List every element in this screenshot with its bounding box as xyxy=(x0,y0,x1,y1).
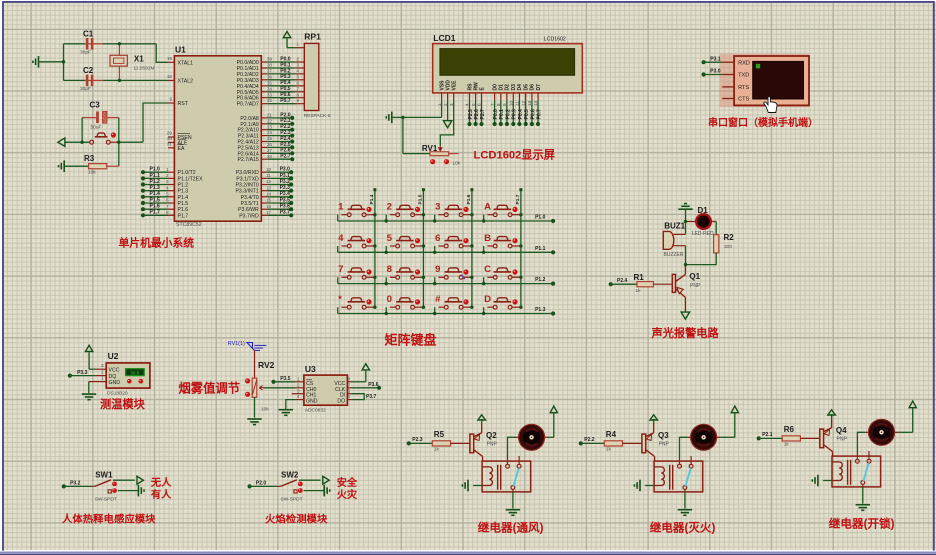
node xyxy=(118,79,121,82)
svg-text:3: 3 xyxy=(297,388,300,393)
node xyxy=(684,220,687,223)
wire VSS to ground rail xyxy=(403,100,442,117)
transistor Q4 PNP xyxy=(820,419,848,457)
svg-text:C: C xyxy=(484,264,491,275)
svg-text:30: 30 xyxy=(167,136,173,141)
wire LCD D5 to net P0.5 xyxy=(524,100,530,126)
wire net P3.5 xyxy=(271,376,295,384)
cursor artifact xyxy=(462,274,466,280)
relay moving contact xyxy=(686,468,691,486)
svg-text:P1.1: P1.1 xyxy=(535,246,546,252)
svg-text:P1.5: P1.5 xyxy=(150,197,161,203)
ground up symbol xyxy=(678,204,692,234)
U1 pin P0.7 wire to RP1 xyxy=(237,98,305,108)
svg-text:7: 7 xyxy=(347,382,350,387)
svg-text:测温模块: 测温模块 xyxy=(100,397,146,411)
svg-text:BUZZER: BUZZER xyxy=(664,252,684,258)
pushbutton key 6 xyxy=(435,233,474,253)
svg-text:P3.5/T1: P3.5/T1 xyxy=(241,201,259,207)
U3 right pin 8 xyxy=(347,376,351,381)
svg-text:人体热释电感应模块: 人体热释电感应模块 xyxy=(62,513,156,526)
wire xyxy=(118,118,120,167)
LCD pin D3 xyxy=(509,84,518,106)
svg-text:P1.6: P1.6 xyxy=(150,204,161,210)
node xyxy=(482,251,485,254)
svg-text:24: 24 xyxy=(267,130,273,135)
svg-text:19: 19 xyxy=(167,56,173,61)
svg-text:RST: RST xyxy=(178,101,189,107)
svg-text:P2.2: P2.2 xyxy=(584,437,595,443)
keypad column net P1.4 xyxy=(369,188,377,307)
node xyxy=(433,219,436,222)
svg-text:P3.2/INT0: P3.2/INT0 xyxy=(235,183,258,189)
svg-text:C2: C2 xyxy=(83,66,94,75)
LED D1 xyxy=(686,206,717,237)
svg-text:安全: 安全 xyxy=(337,476,358,489)
svg-text:P0.0: P0.0 xyxy=(493,109,499,120)
U1 pin P1.3 with net stub xyxy=(141,185,188,195)
ground xyxy=(247,419,261,425)
wire RV2 wiper to CH0 xyxy=(263,387,296,389)
wire LCD D3 to net P0.3 xyxy=(511,100,518,126)
svg-text:4: 4 xyxy=(297,69,300,74)
svg-text:32: 32 xyxy=(267,98,273,103)
svg-text:D5: D5 xyxy=(524,84,530,91)
svg-text:#: # xyxy=(435,294,441,305)
svg-text:10: 10 xyxy=(266,167,272,172)
svg-text:RV2: RV2 xyxy=(258,360,275,370)
U1 pin P3.1 with net stub xyxy=(236,173,293,183)
wire to ground xyxy=(118,485,144,497)
wire motor to power xyxy=(548,406,557,437)
svg-text:Q1: Q1 xyxy=(689,272,700,281)
wire to power arrow xyxy=(299,476,329,484)
svg-text:LCD1: LCD1 xyxy=(433,33,455,43)
potentiometer RV1 xyxy=(403,117,461,166)
svg-text:13: 13 xyxy=(266,185,272,190)
svg-text:RS: RS xyxy=(467,83,473,91)
svg-text:1: 1 xyxy=(101,376,104,381)
svg-text:10k: 10k xyxy=(88,170,96,176)
U1 pin P2.4 with net stub xyxy=(237,136,294,146)
node xyxy=(482,312,485,315)
reset button xyxy=(64,133,118,144)
serial pin RTS xyxy=(722,85,749,91)
wire motor to power xyxy=(720,406,738,437)
svg-text:R6: R6 xyxy=(784,425,795,434)
svg-text:P3.4: P3.4 xyxy=(280,191,291,197)
svg-text:LCD1602: LCD1602 xyxy=(544,36,566,42)
keypad column net P1.7 xyxy=(515,188,523,307)
relay RL5 xyxy=(482,461,531,492)
svg-text:声光报警电路: 声光报警电路 xyxy=(651,326,720,340)
svg-text:P3.6/WR: P3.6/WR xyxy=(238,207,259,213)
svg-text:P0.2: P0.2 xyxy=(505,109,511,120)
ground arrow down xyxy=(681,312,689,319)
svg-text:11: 11 xyxy=(266,173,271,178)
transistor Q3 PNP xyxy=(642,424,670,462)
mouse hand cursor xyxy=(764,96,777,112)
svg-text:8: 8 xyxy=(387,264,393,275)
svg-text:P0.7/AD7: P0.7/AD7 xyxy=(237,102,259,108)
svg-text:D7: D7 xyxy=(536,84,542,91)
wire to ground xyxy=(678,492,692,515)
buzzer BUZ1 xyxy=(663,221,685,258)
cursor block xyxy=(756,64,760,69)
svg-text:2: 2 xyxy=(297,382,300,387)
svg-text:P3.4/T0: P3.4/T0 xyxy=(241,195,259,201)
node xyxy=(433,282,436,285)
U3 right pin 6 xyxy=(347,388,351,393)
U1 pin P1.4 with net stub xyxy=(141,191,188,201)
LCD pin VSS xyxy=(437,80,446,106)
U1 pin P2.3 with net stub xyxy=(238,130,294,140)
svg-text:1: 1 xyxy=(297,42,300,47)
svg-text:1k: 1k xyxy=(434,447,440,453)
pushbutton key * xyxy=(338,294,377,314)
U1 left pin ALE xyxy=(167,136,188,146)
svg-text:继电器(开锁): 继电器(开锁) xyxy=(829,516,895,530)
LCD pin D7 xyxy=(533,84,542,106)
U3 left pin 1 xyxy=(296,376,304,381)
wire net P3.3 xyxy=(68,370,95,378)
button indicator xyxy=(111,132,116,137)
wire xyxy=(685,233,687,236)
capacitor C1 xyxy=(64,30,157,56)
serial pin TXD xyxy=(722,73,749,79)
svg-text:11.0592M: 11.0592M xyxy=(134,66,155,72)
svg-text:P1.3: P1.3 xyxy=(150,185,161,191)
svg-text:6: 6 xyxy=(297,80,300,85)
svg-text:D4: D4 xyxy=(517,84,523,91)
svg-text:P3.7: P3.7 xyxy=(280,210,291,216)
svg-text:P2.5: P2.5 xyxy=(468,109,474,120)
svg-text:P3.3: P3.3 xyxy=(77,370,88,376)
svg-text:P3.5: P3.5 xyxy=(280,197,291,203)
svg-text:R1: R1 xyxy=(634,273,645,282)
svg-text:DS18B20: DS18B20 xyxy=(107,390,128,396)
svg-text:GND: GND xyxy=(109,380,121,386)
pushbutton key C xyxy=(484,264,523,284)
wire net P3.6 xyxy=(351,382,381,390)
svg-text:P3.0/RXD: P3.0/RXD xyxy=(236,170,259,176)
power arrow xyxy=(478,415,486,424)
LCD pin E xyxy=(477,87,486,107)
svg-text:U2: U2 xyxy=(108,351,119,361)
svg-text:29: 29 xyxy=(167,131,173,136)
svg-text:15: 15 xyxy=(266,198,272,203)
svg-text:10k: 10k xyxy=(452,160,460,166)
svg-text:C3: C3 xyxy=(90,101,101,110)
svg-text:无人: 无人 xyxy=(150,476,172,489)
pushbutton key 0 xyxy=(386,294,425,314)
keypad row net P1.1 xyxy=(338,246,556,255)
svg-text:7: 7 xyxy=(338,264,343,275)
svg-text:BUZ1: BUZ1 xyxy=(664,221,685,230)
node xyxy=(385,219,388,222)
resistor R5 xyxy=(432,430,470,453)
svg-text:SW2: SW2 xyxy=(281,470,299,479)
svg-text:P1.7: P1.7 xyxy=(515,194,521,204)
svg-text:EA: EA xyxy=(178,146,185,152)
LCD1 display body xyxy=(433,33,583,93)
svg-text:2: 2 xyxy=(297,57,300,62)
LCD pin VEE xyxy=(449,80,458,106)
svg-text:4: 4 xyxy=(297,394,300,399)
wire LCD RW to net P2.6 xyxy=(474,100,481,126)
wire LCD D6 to net P0.6 xyxy=(530,100,536,126)
terminal indicator xyxy=(444,159,449,164)
power arrow xyxy=(283,32,295,48)
U1 pin P1.1 with net stub xyxy=(141,173,203,183)
resistor R4 xyxy=(604,430,642,453)
svg-text:2: 2 xyxy=(101,370,104,375)
U1 pin P2.1 with net stub xyxy=(240,118,294,128)
U1 pin P3.6 with net stub xyxy=(238,204,293,214)
svg-text:P3.6: P3.6 xyxy=(280,204,291,210)
wire LCD RS to net P2.5 xyxy=(467,100,474,126)
svg-text:P1.4: P1.4 xyxy=(178,195,189,201)
svg-text:30pF: 30pF xyxy=(80,86,91,92)
svg-text:U1: U1 xyxy=(175,45,186,55)
svg-text:35: 35 xyxy=(267,80,273,85)
terminal indicator xyxy=(430,159,435,164)
svg-text:4: 4 xyxy=(338,233,344,244)
wire VEE to RV1 wiper xyxy=(440,100,453,146)
svg-text:烟雾值调节: 烟雾值调节 xyxy=(179,381,241,396)
wire pole to motor xyxy=(857,432,865,452)
wire LCD D1 to net P0.1 xyxy=(499,100,506,126)
svg-text:ADC0832: ADC0832 xyxy=(305,408,326,414)
svg-text:1k: 1k xyxy=(636,288,642,294)
svg-text:*: * xyxy=(338,294,342,305)
svg-text:P3.5: P3.5 xyxy=(280,376,291,382)
svg-text:P2.4: P2.4 xyxy=(617,278,628,284)
svg-text:P3.7: P3.7 xyxy=(366,394,377,400)
power arrow xyxy=(85,345,95,369)
U1 pin P1.7 with net stub xyxy=(141,210,188,220)
svg-text:22: 22 xyxy=(267,118,273,123)
svg-text:U3: U3 xyxy=(305,364,316,374)
U1 pin P0.6 wire to RP1 xyxy=(237,92,305,102)
svg-text:RXD: RXD xyxy=(738,60,750,66)
power arrow xyxy=(351,364,369,382)
pushbutton key A xyxy=(484,202,523,222)
wire to RST xyxy=(119,103,168,142)
svg-text:P3.0: P3.0 xyxy=(280,167,291,173)
ground xyxy=(812,475,832,487)
svg-text:PNP: PNP xyxy=(690,283,701,289)
power arrow xyxy=(650,415,658,424)
svg-text:9: 9 xyxy=(169,97,172,102)
motor xyxy=(687,424,720,450)
U1 pin P1.0 with net stub xyxy=(141,167,196,177)
LCD pin RS xyxy=(465,83,474,106)
U1 left pin XTAL1 xyxy=(167,56,193,67)
U3 right pin 7 xyxy=(347,382,351,387)
ground xyxy=(82,382,96,400)
keypad row net P1.0 xyxy=(338,215,556,223)
U1 left pin EA xyxy=(167,141,185,151)
U1 pin P3.7 with net stub xyxy=(239,210,293,220)
wire to ground xyxy=(506,492,520,515)
relay contact pole xyxy=(506,456,521,492)
U1 pin P0.4 wire to RP1 xyxy=(237,80,305,90)
svg-text:X1: X1 xyxy=(134,55,144,64)
svg-text:1: 1 xyxy=(297,376,300,381)
svg-text:P3.1/TXD: P3.1/TXD xyxy=(236,176,259,182)
svg-text:5: 5 xyxy=(387,233,393,244)
svg-text:1k: 1k xyxy=(784,442,790,448)
svg-text:火焰检测模块: 火焰检测模块 xyxy=(265,513,328,526)
svg-text:3: 3 xyxy=(101,363,104,368)
resistor R1 xyxy=(609,273,673,294)
node xyxy=(401,116,404,119)
ground arrow xyxy=(58,138,65,146)
svg-text:D0: D0 xyxy=(492,84,498,91)
svg-text:C1: C1 xyxy=(83,30,94,39)
svg-text:P1.4: P1.4 xyxy=(369,194,375,204)
svg-text:P1.1: P1.1 xyxy=(150,173,161,179)
node xyxy=(62,60,65,63)
svg-text:有人: 有人 xyxy=(151,488,172,501)
pushbutton key 5 xyxy=(386,233,425,253)
wire to ground xyxy=(856,487,870,510)
svg-text:1: 1 xyxy=(166,167,169,172)
U3 left pin 2 xyxy=(296,382,304,387)
LCD pin D5 xyxy=(521,84,530,106)
wire xyxy=(685,246,687,265)
pushbutton key 3 xyxy=(435,202,474,222)
svg-text:SW-SPDT: SW-SPDT xyxy=(95,497,117,503)
svg-text:继电器(通风): 继电器(通风) xyxy=(478,520,544,534)
svg-text:P1.3: P1.3 xyxy=(535,307,546,313)
LCD pin D4 xyxy=(515,84,524,106)
transistor Q2 PNP xyxy=(470,424,498,462)
svg-text:R4: R4 xyxy=(606,430,617,439)
U1 pin P1.2 with net stub xyxy=(141,179,188,189)
U1 pin P3.5 with net stub xyxy=(241,197,294,207)
svg-text:Q3: Q3 xyxy=(658,431,669,440)
svg-text:Q2: Q2 xyxy=(486,431,497,440)
svg-text:300: 300 xyxy=(724,244,732,250)
pushbutton key 9 xyxy=(435,264,474,284)
svg-text:RP1: RP1 xyxy=(304,32,321,42)
pushbutton key 8 xyxy=(386,264,425,284)
svg-text:TXD: TXD xyxy=(738,73,749,79)
wire to power arrow xyxy=(113,476,143,484)
keypad column net P1.6 xyxy=(466,188,474,307)
wire to ground xyxy=(304,485,330,497)
svg-text:P3.1: P3.1 xyxy=(710,56,721,62)
svg-text:P2.0: P2.0 xyxy=(256,481,267,487)
svg-text:P2.7: P2.7 xyxy=(480,109,486,120)
svg-text:P3.3: P3.3 xyxy=(280,185,291,191)
svg-text:30pF: 30pF xyxy=(80,50,91,56)
svg-text:23: 23 xyxy=(267,124,273,129)
U1 pin P2.5 with net stub xyxy=(237,142,294,152)
U1 left pin XTAL2 xyxy=(167,74,193,85)
svg-text:RV1(1): RV1(1) xyxy=(228,341,245,347)
U1 pin P0.0 wire to RP1 xyxy=(237,56,305,66)
svg-text:P1.3: P1.3 xyxy=(178,189,189,195)
svg-text:R5: R5 xyxy=(434,430,445,439)
power arrow xyxy=(828,410,836,419)
svg-text:串口窗口（模拟手机端）: 串口窗口（模拟手机端） xyxy=(708,116,818,129)
pushbutton key 4 xyxy=(338,233,377,253)
svg-text:P2.3: P2.3 xyxy=(412,437,423,443)
svg-text:P1.0: P1.0 xyxy=(535,215,546,221)
U1 left pin RST xyxy=(168,97,189,108)
resistor R2 xyxy=(686,222,735,265)
wire xyxy=(63,44,65,81)
pushbutton key 1 xyxy=(338,202,377,222)
svg-text:3: 3 xyxy=(297,63,300,68)
U1 pin P2.2 with net stub xyxy=(237,124,294,134)
ground xyxy=(33,56,64,68)
U1 pin P3.0 with net stub xyxy=(236,167,294,177)
svg-text:37: 37 xyxy=(267,69,273,74)
wire to XTAL1 xyxy=(156,44,168,63)
svg-text:P1.0: P1.0 xyxy=(150,167,161,173)
svg-text:1: 1 xyxy=(338,202,344,213)
svg-text:D1: D1 xyxy=(499,84,505,91)
svg-text:P0.1: P0.1 xyxy=(499,109,505,120)
svg-text:PNP: PNP xyxy=(659,441,670,447)
svg-text:P0.4: P0.4 xyxy=(518,109,524,120)
svg-text:P0.5: P0.5 xyxy=(524,109,530,120)
ADC U3 body xyxy=(304,364,348,414)
svg-text:6: 6 xyxy=(166,198,169,203)
svg-text:R3: R3 xyxy=(84,154,95,163)
node xyxy=(482,219,485,222)
U1 pin P1.6 with net stub xyxy=(141,204,188,214)
wire LCD D2 to net P0.2 xyxy=(505,100,512,126)
svg-text:P1.2: P1.2 xyxy=(535,277,546,283)
svg-text:P1.5: P1.5 xyxy=(178,201,189,207)
svg-text:28: 28 xyxy=(267,154,273,159)
svg-text:PNP: PNP xyxy=(837,436,848,442)
serial pin RXD xyxy=(722,60,750,66)
svg-text:P0.6: P0.6 xyxy=(530,109,536,120)
resistor R3 xyxy=(65,154,119,176)
keypad column net P1.5 xyxy=(417,188,425,307)
switch SW2 xyxy=(248,470,303,502)
svg-text:21: 21 xyxy=(267,113,273,118)
motor xyxy=(865,419,898,445)
U1 pin P3.3 with net stub xyxy=(235,185,293,195)
U1 left pin PSEN xyxy=(167,131,192,142)
node xyxy=(118,42,121,45)
svg-text:27: 27 xyxy=(267,148,273,153)
svg-text:P3.0: P3.0 xyxy=(710,69,721,75)
svg-text:30.0: 30.0 xyxy=(130,370,139,375)
svg-text:GND: GND xyxy=(306,399,318,405)
svg-text:5: 5 xyxy=(297,74,300,79)
svg-text:6: 6 xyxy=(347,388,350,393)
svg-text:16: 16 xyxy=(266,204,272,209)
svg-text:Q4: Q4 xyxy=(836,426,847,435)
svg-text:P1.6: P1.6 xyxy=(178,207,189,213)
svg-text:XTAL1: XTAL1 xyxy=(178,60,194,66)
U1 pin P2.7 with net stub xyxy=(237,154,294,164)
svg-text:RTS: RTS xyxy=(738,85,749,91)
wire LCD E to net P2.7 xyxy=(479,100,486,126)
svg-text:7: 7 xyxy=(166,204,169,209)
svg-text:RESPACK-8: RESPACK-8 xyxy=(304,113,331,119)
svg-text:17: 17 xyxy=(266,210,272,215)
U1 pin P3.2 with net stub xyxy=(235,179,293,189)
